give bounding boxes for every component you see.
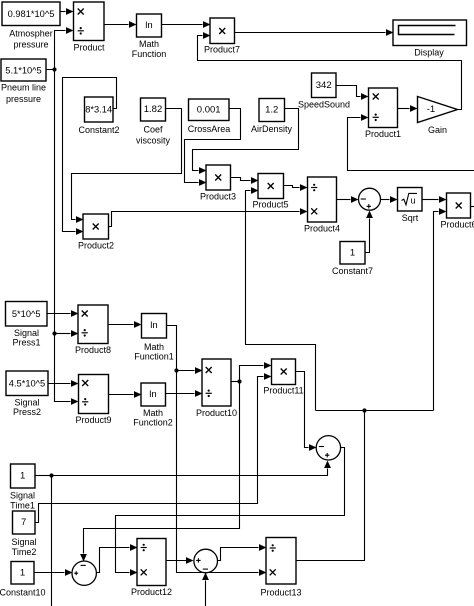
constant Signal Press2 (4.5*10^5) xyxy=(6,371,48,417)
svg-text:Time1: Time1 xyxy=(10,501,35,511)
svg-text:pressure: pressure xyxy=(13,40,48,50)
constant Constant10 (1) xyxy=(0,562,46,598)
svg-text:Product2: Product2 xyxy=(78,241,114,251)
node junction at Pneum output xyxy=(52,67,56,71)
svg-text:1: 1 xyxy=(20,471,25,482)
sum block Sum-c2 (+ left, - bottom) xyxy=(194,549,218,573)
svg-text:Display: Display xyxy=(414,48,444,58)
svg-text:Product9: Product9 xyxy=(75,415,111,425)
svg-text:Gain: Gain xyxy=(428,125,447,135)
svg-text:Signal: Signal xyxy=(11,537,36,547)
svg-text:Signal: Signal xyxy=(14,328,39,338)
sum block Sum1 (- +) xyxy=(359,188,381,210)
product block Product11 xyxy=(263,359,303,396)
product block Product8 xyxy=(75,305,111,355)
product block Product6 xyxy=(440,193,474,230)
wire from right edge to Product1 div-input xyxy=(348,114,474,170)
svg-text:u: u xyxy=(410,195,415,205)
wire Sqrt to Product6 input 1 xyxy=(423,196,447,203)
node feedback junction xyxy=(362,408,366,412)
wire Math Function to Product7 input 1 xyxy=(162,21,211,28)
svg-text:Function2: Function2 xyxy=(133,418,173,428)
wire Product1 to Gain xyxy=(398,105,418,112)
sum block Sum3 (- +) xyxy=(316,436,340,460)
product block Product9 xyxy=(75,375,111,426)
svg-text:Coef: Coef xyxy=(143,125,163,135)
wire Product3 to Product5 input 1 xyxy=(231,177,259,184)
svg-text:Time2: Time2 xyxy=(12,547,37,557)
product block Product5 xyxy=(252,174,288,210)
svg-text:0.001: 0.001 xyxy=(197,105,221,116)
wire Sum1 to Sqrt xyxy=(381,196,398,203)
node junction at Product8 div branch xyxy=(52,331,56,335)
wire Product7 to Display xyxy=(235,29,394,36)
svg-text:Pneum line: Pneum line xyxy=(1,83,46,93)
wire Pneum line pressure to Product div-input xyxy=(47,27,74,69)
wire Product9 to Math Function2 xyxy=(109,391,142,398)
wire Sum-c2 to Product13 div-input xyxy=(218,544,267,560)
svg-text:1: 1 xyxy=(20,567,25,578)
svg-text:Function1: Function1 xyxy=(134,352,174,362)
svg-text:1: 1 xyxy=(350,248,355,259)
node junction at Math Function1 branch xyxy=(174,368,178,372)
svg-text:Press2: Press2 xyxy=(13,407,41,417)
wire Constant10 to Sum-c1 plus-input xyxy=(35,569,73,576)
svg-text:1.2: 1.2 xyxy=(265,105,278,116)
svg-text:pressure: pressure xyxy=(6,94,41,104)
svg-text:Product8: Product8 xyxy=(75,345,111,355)
wire Signal Press1 to Product8 x-input xyxy=(48,310,79,317)
constant Atmospher pressure (0.981*10^5) xyxy=(2,2,60,50)
constant Signal Press1 (5*10^5) xyxy=(6,302,48,348)
wire Product10 to Product11 input 1 and down to Sum-c1 minus-input xyxy=(80,362,271,561)
sqrt block Sqrt xyxy=(398,188,423,224)
svg-text:Product12: Product12 xyxy=(131,587,172,597)
display block Display xyxy=(393,20,467,58)
svg-text:Product3: Product3 xyxy=(200,192,236,202)
wire Constant2 to Product2 input 2 xyxy=(63,78,117,235)
svg-text:8*3.14: 8*3.14 xyxy=(85,105,112,115)
math function block Math Function (ln) xyxy=(132,14,167,59)
svg-text:Press1: Press1 xyxy=(12,338,40,348)
wire Product5 to Product4 div-input xyxy=(284,184,308,191)
wire Product to Math Function xyxy=(105,21,137,28)
wire Product4 to Sum1 minus-input xyxy=(337,196,359,203)
constant AirDensity (1.2) xyxy=(251,99,293,135)
svg-text:Product13: Product13 xyxy=(260,588,301,598)
svg-text:Constant2: Constant2 xyxy=(78,125,119,135)
svg-text:5*10^5: 5*10^5 xyxy=(12,309,41,319)
constant Constant2 (8*3.14) xyxy=(78,97,119,135)
product block Product3 xyxy=(200,165,236,202)
svg-text:1.82: 1.82 xyxy=(144,104,163,115)
wire Product13 output up to feedback junction xyxy=(297,411,365,561)
wire Signal Time2 to Product11 input 2 xyxy=(36,373,272,522)
wire CrossArea to Product3 input 2 xyxy=(185,109,241,186)
wire Sum-c1 to Product12 div-input xyxy=(97,544,138,572)
wire Signal Press2 to Product9 x-input xyxy=(49,380,79,387)
svg-text:Product10: Product10 xyxy=(196,408,237,418)
gain block Gain (-1) xyxy=(418,97,458,136)
wire Product12 to Sum-c2 plus-input xyxy=(167,557,194,564)
product block Product12 xyxy=(131,539,172,598)
wire from bottom edge to Sum-c2 minus-input xyxy=(202,573,209,606)
wire Product2 to Product4 x-input xyxy=(109,208,308,226)
product block Product2 xyxy=(78,214,114,251)
wire Gain feedback to Product7 input 2 xyxy=(198,32,462,109)
wire feedback to Product6 input 2 and Product5 input 2 xyxy=(246,187,447,410)
svg-text:AirDensity: AirDensity xyxy=(251,124,293,134)
svg-text:4.5*10^5: 4.5*10^5 xyxy=(9,379,45,389)
constant SpeedSound (342) xyxy=(298,73,350,110)
constant Signal Time1 (1) xyxy=(10,464,35,511)
wire SpeedSound to Product1 x-input xyxy=(337,86,369,100)
svg-text:CrossArea: CrossArea xyxy=(188,124,231,134)
svg-text:Math: Math xyxy=(144,342,164,352)
wire Product8 to Math Function1 xyxy=(109,321,142,328)
svg-text:Math: Math xyxy=(139,39,159,49)
product block Product13 xyxy=(260,538,301,598)
wire Coef viscosity to Product2 input 1 xyxy=(72,109,182,223)
svg-text:Product7: Product7 xyxy=(204,45,240,55)
svg-text:0.981*10^5: 0.981*10^5 xyxy=(8,9,55,19)
constant Constant7 (1) xyxy=(332,242,373,277)
node junction at Product10 output xyxy=(237,379,241,383)
svg-text:Product11: Product11 xyxy=(263,386,303,396)
svg-text:Constant10: Constant10 xyxy=(0,588,46,598)
wire Pneum line bus down to Product8 and Product9 div-inputs xyxy=(55,70,79,405)
svg-text:Function: Function xyxy=(132,49,167,59)
wire Sum3 to Product12 x-input xyxy=(116,448,345,576)
math function block Math Function1 (ln) xyxy=(134,314,174,362)
svg-text:Product: Product xyxy=(73,43,105,53)
wire Constant7 to Sum1 plus-input xyxy=(366,211,373,253)
svg-text:5.1*10^5: 5.1*10^5 xyxy=(5,66,41,76)
svg-text:Product6: Product6 xyxy=(440,220,474,230)
svg-text:342: 342 xyxy=(316,80,332,91)
node junction at Signal Time1 output xyxy=(49,473,53,477)
svg-text:Atmospher: Atmospher xyxy=(9,29,53,39)
wire Math Function1 to Product10 x-input and down to Product13 x-input xyxy=(167,326,267,576)
wire Signal Time1 to Sum3 plus-input and down off-page xyxy=(36,461,331,606)
svg-text:7: 7 xyxy=(21,517,26,528)
svg-text:Constant7: Constant7 xyxy=(332,266,373,276)
svg-text:Product4: Product4 xyxy=(304,224,340,234)
svg-text:ln: ln xyxy=(149,389,156,400)
svg-text:Product5: Product5 xyxy=(252,200,288,210)
svg-text:-1: -1 xyxy=(427,104,435,115)
product block Product7 xyxy=(204,18,240,55)
wire AirDensity to Product3 input 1 xyxy=(193,109,299,174)
constant Signal Time2 (7) xyxy=(11,511,36,557)
svg-text:Product1: Product1 xyxy=(365,129,401,139)
svg-text:Signal: Signal xyxy=(10,491,35,501)
svg-text:ln: ln xyxy=(150,320,157,331)
constant CrossArea (0.001) xyxy=(188,99,231,134)
svg-text:SpeedSound: SpeedSound xyxy=(298,100,350,110)
svg-text:Signal: Signal xyxy=(14,398,39,408)
constant Pneum line pressure (5.1*10^5) xyxy=(1,59,46,104)
svg-text:viscosity: viscosity xyxy=(136,136,171,146)
svg-text:ln: ln xyxy=(145,20,152,31)
wire Atmospher pressure to Product x-input xyxy=(61,8,74,15)
product block Product1 xyxy=(365,88,401,139)
svg-text:Math: Math xyxy=(143,408,163,418)
math function block Math Function2 (ln) xyxy=(133,383,173,428)
sum block Sum-c1 (- top, + left) xyxy=(72,561,96,585)
wire Math Function2 to Product10 div-input xyxy=(166,390,203,397)
product block Product xyxy=(73,2,105,53)
product block Product10 xyxy=(196,359,237,418)
wire Product11 to Sum3 minus-input xyxy=(296,372,317,451)
constant Coef viscosity (1.82) xyxy=(136,98,171,146)
product block Product4 xyxy=(304,177,340,234)
svg-text:Sqrt: Sqrt xyxy=(402,213,419,223)
wire Product6 output to right edge xyxy=(471,206,474,208)
